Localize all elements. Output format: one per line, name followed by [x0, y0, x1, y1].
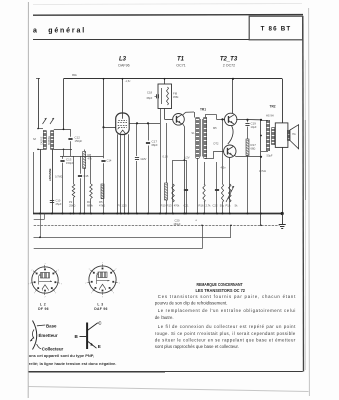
- svg-text:68pF: 68pF: [152, 143, 158, 147]
- svg-text:C19: C19: [251, 122, 257, 126]
- svg-text:150pF: 150pF: [66, 161, 74, 165]
- svg-text:HA: HA: [292, 133, 296, 136]
- svg-text:R4: R4: [87, 200, 91, 204]
- svg-text:LES TRANSISTORS OC 72: LES TRANSISTORS OC 72: [196, 288, 246, 293]
- svg-text:sont plus rapprochés que base: sont plus rapprochés que base et collect…: [155, 344, 239, 349]
- svg-text:R17: R17: [251, 143, 257, 147]
- svg-text:P1A: P1A: [225, 204, 230, 208]
- svg-text:M5: M5: [213, 126, 217, 130]
- svg-text:2 OC72: 2 OC72: [223, 64, 235, 68]
- svg-text:R13: R13: [167, 204, 172, 208]
- svg-text:68pF: 68pF: [147, 97, 153, 100]
- svg-text:Ces transistors sont fournis p: Ces transistors sont fournis par paire, …: [158, 294, 296, 299]
- svg-text:+: +: [195, 219, 197, 223]
- svg-text:25µF: 25µF: [56, 202, 62, 206]
- svg-text:-1,5v: -1,5v: [125, 80, 131, 83]
- svg-text:680k: 680k: [87, 204, 93, 208]
- svg-text:150pF: 150pF: [75, 139, 83, 143]
- svg-text:25kΩ: 25kΩ: [69, 204, 75, 208]
- svg-text:relié; la ligne haute tension: relié; la ligne haute tension est donc n…: [29, 361, 117, 366]
- svg-text:Émetteur: Émetteur: [39, 333, 58, 338]
- svg-text:T 86 BT: T 86 BT: [261, 25, 292, 32]
- svg-text:de l'autre.: de l'autre.: [155, 315, 174, 320]
- svg-text:150µF: 150µF: [173, 223, 181, 226]
- svg-text:80v: 80v: [72, 73, 77, 77]
- svg-text:T2_T3: T2_T3: [220, 57, 238, 63]
- svg-text:47kΩ: 47kΩ: [99, 204, 105, 208]
- svg-text:ANTENNE: ANTENNE: [48, 168, 52, 181]
- svg-text:a: a: [33, 27, 37, 34]
- svg-text:455k: 455k: [173, 96, 179, 99]
- svg-text:FI8: FI8: [173, 92, 177, 96]
- svg-text:Base: Base: [46, 323, 57, 328]
- svg-text:L 3: L 3: [97, 302, 103, 306]
- svg-text:Le fil de connexion du collect: Le fil de connexion du collecteur est re…: [158, 324, 296, 329]
- svg-text:C17: C17: [152, 140, 158, 144]
- svg-text:470k: 470k: [174, 204, 180, 208]
- svg-text:C18: C18: [147, 91, 153, 95]
- svg-text:L3: L3: [119, 57, 127, 63]
- svg-text:DT2: DT2: [214, 142, 219, 146]
- svg-text:C14: C14: [107, 159, 112, 163]
- svg-text:FY 12,5: FY 12,5: [117, 204, 127, 208]
- svg-text:ons cet appareil sont du type: ons cet appareil sont du type PNP,: [29, 353, 94, 358]
- svg-text:47k: 47k: [88, 157, 93, 161]
- svg-text:4,5v: 4,5v: [221, 166, 227, 170]
- svg-text:Collecteur: Collecteur: [42, 346, 64, 351]
- svg-text:OC71: OC71: [176, 64, 185, 68]
- svg-text:C13: C13: [66, 158, 72, 162]
- svg-text:L 2: L 2: [40, 302, 46, 306]
- svg-text:6,2V: 6,2V: [184, 156, 190, 160]
- svg-text:GMV: GMV: [141, 157, 147, 161]
- svg-text:0,1V: 0,1V: [163, 155, 169, 159]
- svg-text:4,7kΩ: 4,7kΩ: [259, 169, 266, 173]
- svg-text:HS 9H: HS 9H: [266, 114, 274, 118]
- svg-text:0,7MΩ: 0,7MΩ: [55, 175, 63, 179]
- svg-text:10µF: 10µF: [251, 125, 257, 129]
- svg-text:de situer le collecteur en se: de situer le collecteur en se rappelant …: [155, 337, 296, 342]
- svg-text:50µ: 50µ: [220, 204, 225, 208]
- svg-text:P2: P2: [69, 200, 73, 204]
- svg-text:T1: T1: [177, 57, 185, 63]
- svg-text:général: général: [48, 27, 86, 34]
- svg-text:pourvu de son clip de refroidi: pourvu de son clip de refroidissement.: [155, 301, 228, 306]
- svg-text:Le remplacement de l'un entraî: Le remplacement de l'un entraîne obligat…: [158, 308, 296, 313]
- svg-text:S1: S1: [191, 131, 195, 135]
- svg-text:R5: R5: [99, 200, 103, 204]
- svg-text:DAF 96: DAF 96: [94, 307, 107, 311]
- svg-text:50µF: 50µF: [267, 154, 273, 158]
- svg-text:CADRE: CADRE: [41, 136, 44, 145]
- svg-text:R16: R16: [199, 204, 204, 208]
- svg-text:DAF96: DAF96: [118, 64, 129, 68]
- svg-text:TR1: TR1: [200, 108, 206, 112]
- svg-text:68Ω: 68Ω: [251, 147, 256, 151]
- svg-text:C12: C12: [75, 136, 81, 140]
- svg-text:C21: C21: [184, 204, 189, 208]
- svg-text:TR2: TR2: [270, 105, 276, 109]
- svg-text:C22: C22: [213, 204, 218, 208]
- svg-text:REMARQUE CONCERNANT: REMARQUE CONCERNANT: [197, 282, 244, 287]
- svg-text:BOBINE: BOBINE: [48, 136, 51, 145]
- svg-text:R10: R10: [161, 204, 166, 208]
- svg-text:2,7k: 2,7k: [206, 204, 212, 208]
- svg-text:DF 96: DF 96: [38, 307, 49, 311]
- svg-text:E: E: [98, 344, 101, 349]
- svg-text:rouge. Si ce point n'existait: rouge. Si ce point n'existait plus, il s…: [155, 331, 296, 336]
